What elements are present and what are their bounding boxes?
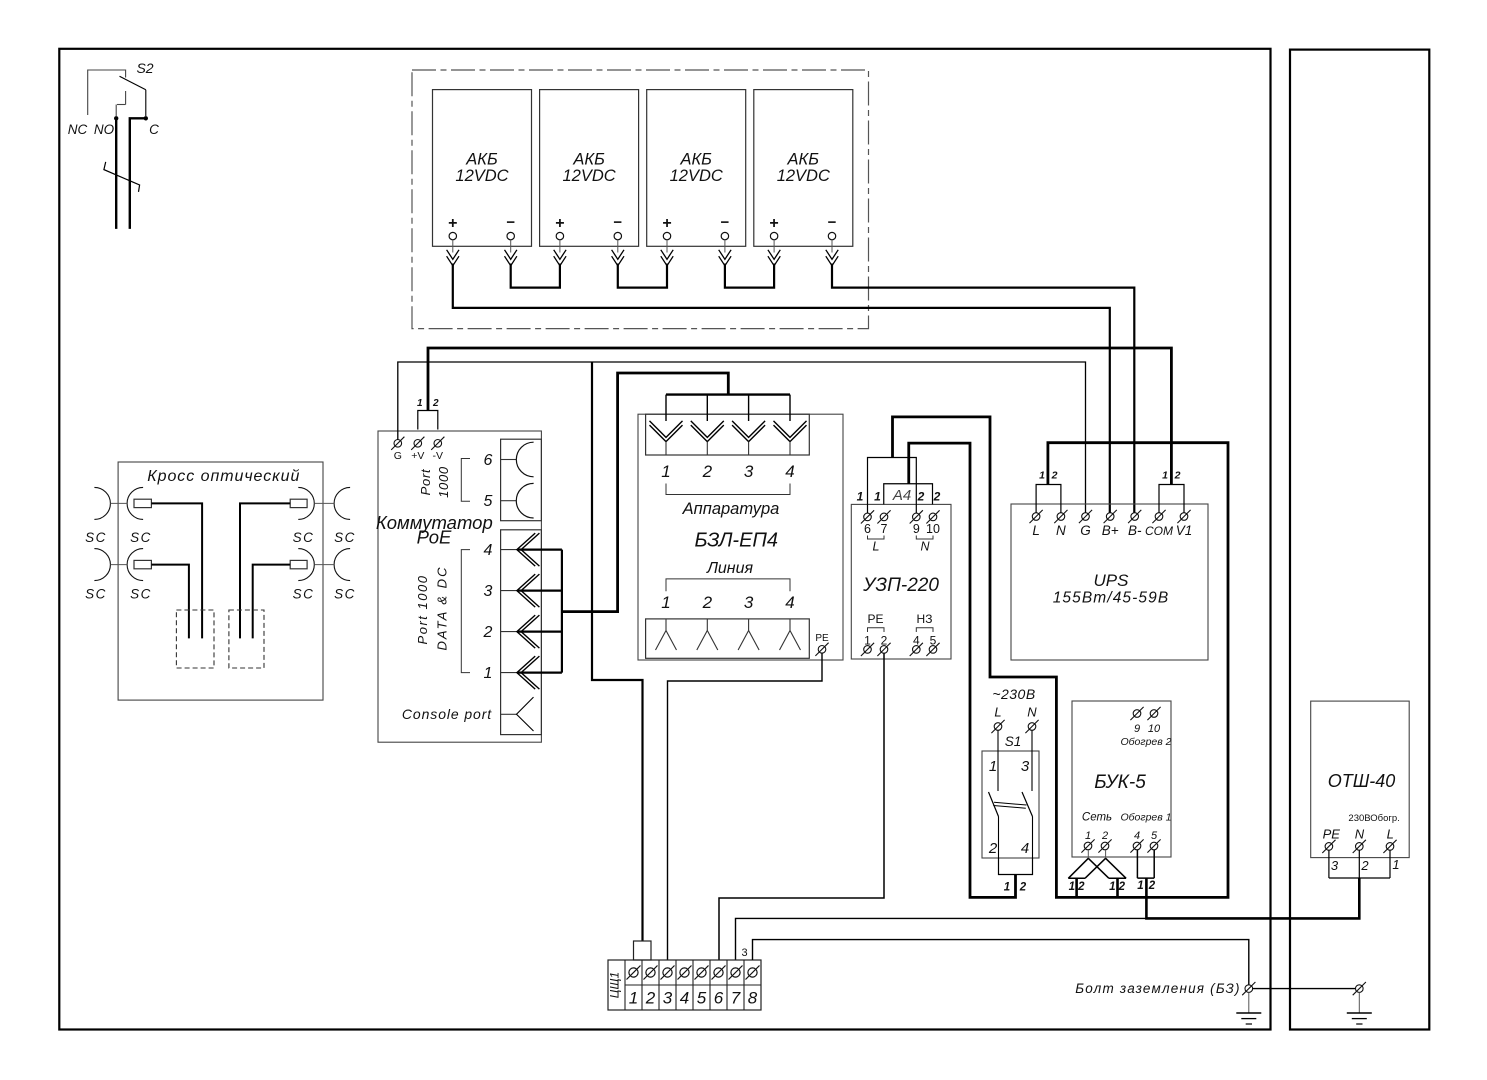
- svg-text:B-: B-: [1128, 523, 1142, 538]
- svg-text:SC: SC: [130, 587, 152, 602]
- wire PoE data bus vertical: [561, 550, 563, 673]
- PoE uplink ports box: [501, 439, 542, 521]
- svg-text:Сеть: Сеть: [1082, 812, 1112, 824]
- svg-text:−: −: [613, 214, 622, 231]
- terminal ЦЩ1-1: [629, 968, 638, 977]
- Port 1000 DATA & DC bracket: [461, 550, 470, 673]
- svg-text:−: −: [828, 214, 837, 231]
- УЗП terminal 7: [880, 513, 888, 521]
- svg-text:АКБ: АКБ: [465, 151, 498, 169]
- svg-text:12VDC: 12VDC: [562, 167, 615, 185]
- svg-text:230В: 230В: [1348, 813, 1370, 824]
- UPS terminal B-: [1131, 513, 1139, 521]
- S1 pole L: [997, 730, 999, 791]
- svg-text:1: 1: [661, 593, 670, 612]
- БЗЛ line ports box: [646, 619, 810, 658]
- svg-text:S2: S2: [136, 60, 153, 76]
- PoE data ports box: [501, 530, 542, 735]
- svg-text:6: 6: [484, 452, 493, 469]
- БЗЛ apparatus ports box: [646, 414, 810, 455]
- svg-text:SC: SC: [85, 530, 107, 545]
- svg-text:АКБ: АКБ: [787, 151, 820, 169]
- S1 pole N: [1031, 730, 1033, 791]
- svg-text:РоЕ: РоЕ: [417, 527, 452, 548]
- svg-text:2: 2: [1077, 881, 1085, 893]
- UPS box: [1011, 504, 1208, 660]
- БЗЛ PE terminal: [818, 646, 826, 654]
- UPS terminal B+: [1106, 513, 1114, 521]
- terminal ЦЩ1-2: [646, 968, 655, 977]
- svg-text:+: +: [769, 215, 778, 232]
- svg-text:2: 2: [917, 490, 925, 504]
- svg-text:Аппаратура: Аппаратура: [682, 500, 780, 518]
- UPS terminal G: [1082, 513, 1090, 521]
- wire terminal8 to ground bolt: [753, 940, 1249, 985]
- wire БЗЛ apparatus bus: [666, 393, 790, 395]
- svg-text:Обогрев 2: Обогрев 2: [1120, 736, 1171, 748]
- svg-text:1: 1: [484, 665, 493, 682]
- wire БЗЛ drop x748.6: [748, 395, 750, 421]
- svg-text:~230В: ~230В: [992, 686, 1035, 702]
- PoE port 3 (DATA & DC): [501, 590, 517, 592]
- svg-text:1: 1: [1392, 857, 1399, 872]
- svg-text:SC: SC: [293, 587, 315, 602]
- svg-text:−: −: [721, 214, 730, 231]
- УЗП terminal 9: [913, 513, 921, 521]
- PoE port 2 (DATA & DC): [501, 631, 517, 633]
- PoE console port symbol: [501, 713, 517, 715]
- svg-text:1: 1: [857, 490, 864, 504]
- PoE port 1 (DATA & DC): [501, 672, 517, 674]
- svg-text:SC: SC: [85, 587, 107, 602]
- svg-text:1: 1: [1109, 881, 1115, 893]
- wire battery2- to battery3+: [618, 264, 667, 288]
- svg-text:Console port: Console port: [402, 706, 492, 722]
- svg-text:5: 5: [1151, 830, 1158, 842]
- svg-text:SC: SC: [130, 530, 152, 545]
- svg-text:2: 2: [933, 490, 941, 504]
- УЗП НЗ bracket: [916, 628, 933, 632]
- svg-text:ЦЩ1: ЦЩ1: [608, 972, 622, 998]
- svg-text:NC: NC: [68, 122, 88, 137]
- svg-text:9: 9: [1134, 723, 1140, 735]
- wire battery1- to battery2+: [511, 264, 560, 288]
- svg-text:5: 5: [697, 989, 707, 1008]
- svg-text:3: 3: [1331, 858, 1339, 873]
- UPS COM-V1 connector bracket: [1159, 485, 1184, 514]
- PoE terminal +V: [414, 440, 422, 448]
- svg-text:РЕ: РЕ: [1323, 827, 1341, 842]
- SC adapter top-right: [298, 487, 314, 519]
- svg-text:+: +: [555, 215, 564, 232]
- svg-text:7: 7: [731, 989, 741, 1008]
- svg-text:6: 6: [714, 989, 724, 1008]
- svg-text:G: G: [1080, 523, 1091, 538]
- УЗП terminal 10: [929, 513, 937, 521]
- terminal ЦЩ1-3: [663, 968, 672, 977]
- svg-text:РЕ: РЕ: [867, 612, 883, 626]
- svg-text:Кросс оптический: Кросс оптический: [147, 468, 300, 485]
- switch S2 C stem: [145, 90, 147, 116]
- svg-text:Линия: Линия: [706, 560, 754, 577]
- svg-text:4: 4: [1021, 840, 1029, 857]
- S1 output bracket: [999, 858, 1033, 875]
- wire +V cable to UPS COM/V1: [428, 348, 1171, 485]
- S1 tie bar: [994, 802, 1027, 805]
- БУК terminal 9: [1133, 710, 1141, 718]
- wire S2 C down: [130, 118, 146, 229]
- wire battery3- to battery4+: [725, 264, 774, 288]
- wire S1 output to УЗП А4: [909, 443, 1016, 897]
- wire БУК Обогрев1 to ОТШ-40: [1146, 878, 1359, 918]
- svg-text:3: 3: [484, 583, 493, 600]
- svg-text:2: 2: [432, 398, 439, 409]
- svg-text:SC: SC: [293, 530, 315, 545]
- svg-text:5: 5: [484, 493, 493, 510]
- wire БЗЛ PE to terminal 3: [668, 653, 823, 960]
- ОТШ terminal bracket: [1328, 850, 1330, 878]
- svg-text:4: 4: [1134, 830, 1140, 842]
- svg-text:SC: SC: [334, 587, 356, 602]
- PoE port 5 (Port 1000): [501, 500, 517, 502]
- SC adapter bottom-right: [298, 549, 314, 581]
- heater ОТШ-40 box: [1311, 701, 1410, 858]
- wire battery1 + bus to UPS B+: [453, 264, 1110, 514]
- wire PoE data port y590.6: [517, 589, 562, 591]
- svg-text:1: 1: [1039, 470, 1045, 482]
- switch S2 blade: [120, 76, 146, 90]
- wire БЗЛ drop x790: [789, 395, 791, 421]
- svg-text:9: 9: [913, 522, 920, 536]
- svg-text:АКБ: АКБ: [572, 151, 605, 169]
- ground symbol БЗ: [1248, 992, 1250, 1012]
- wire pigtail top-left: [151, 503, 202, 638]
- wire battery4 - to UPS B-: [832, 264, 1134, 514]
- UPS terminal V1: [1180, 513, 1188, 521]
- svg-text:Болт заземления (БЗ): Болт заземления (БЗ): [1075, 981, 1240, 996]
- svg-text:БУК-5: БУК-5: [1094, 772, 1146, 793]
- svg-text:2: 2: [1101, 830, 1108, 842]
- svg-text:B+: B+: [1102, 523, 1119, 538]
- БЗЛ apparatus port 2: [691, 421, 724, 438]
- wire УЗП PE-2 to terminal 6: [719, 653, 884, 960]
- svg-text:N: N: [1027, 705, 1037, 720]
- UPS terminal L: [1032, 513, 1040, 521]
- splice cassette right (dashed): [229, 610, 264, 668]
- svg-text:L: L: [1032, 523, 1040, 538]
- svg-text:1: 1: [1137, 880, 1143, 892]
- svg-text:6: 6: [864, 522, 871, 536]
- svg-text:L: L: [994, 705, 1001, 720]
- switch S2 node C: [144, 116, 148, 120]
- УЗП РЕ bracket: [868, 628, 885, 632]
- svg-text:−: −: [506, 214, 515, 231]
- svg-text:Port: Port: [418, 468, 433, 495]
- svg-text:SC: SC: [334, 530, 356, 545]
- battery АКБ1 12VDC: [433, 90, 532, 247]
- svg-text:+: +: [662, 215, 671, 232]
- svg-text:Обогрев 1: Обогрев 1: [1120, 812, 1171, 824]
- svg-text:УЗП-220: УЗП-220: [862, 575, 939, 596]
- wire mains УЗП 6/9 to UPS L-N and БУК: [893, 417, 1229, 898]
- БУК Сеть connector left: [1068, 877, 1085, 879]
- svg-text:3: 3: [742, 947, 748, 959]
- svg-text:4: 4: [680, 989, 689, 1008]
- battery АКБ4 12VDC: [754, 90, 853, 247]
- БУК Обогрев1 connector: [1136, 850, 1138, 878]
- SC adapter top-left: [94, 487, 110, 519]
- svg-text:4: 4: [484, 542, 493, 559]
- connector А4 bracket: [884, 484, 933, 505]
- БУК Сеть terminal stubs: [1087, 850, 1089, 858]
- terminal ЦЩ1-8: [748, 968, 757, 977]
- wire УЗП 6-9 bridge: [868, 458, 917, 514]
- protector БЗЛ-ЕП4 box: [638, 414, 843, 660]
- wire БУК Сеть left to mains: [1075, 878, 1078, 897]
- wire G net drop to terminal block: [592, 362, 643, 941]
- svg-text:N: N: [920, 540, 930, 554]
- svg-text:2: 2: [702, 462, 713, 481]
- svg-text:L: L: [873, 540, 880, 554]
- svg-text:1: 1: [1069, 881, 1075, 893]
- svg-text:DATA & DC: DATA & DC: [435, 566, 450, 651]
- switch S2 NC bracket wire: [88, 70, 126, 115]
- box Кросс оптический: [118, 462, 323, 700]
- svg-text:3: 3: [744, 593, 754, 612]
- УЗП terminal 6: [864, 513, 872, 521]
- battery АКБ2 12VDC: [540, 90, 639, 247]
- svg-text:8: 8: [748, 989, 758, 1008]
- svg-text:4: 4: [785, 593, 794, 612]
- svg-text:12VDC: 12VDC: [670, 167, 723, 185]
- svg-text:2: 2: [483, 624, 493, 641]
- terminal block ЦЩ1 body: [608, 960, 761, 1010]
- svg-text:Обогр.: Обогр.: [1370, 813, 1400, 824]
- ground bolt БЗ: [1245, 985, 1253, 993]
- connector above ЦЩ1 1-2: [634, 941, 652, 960]
- UPS terminal N: [1057, 513, 1065, 521]
- svg-text:1: 1: [629, 989, 638, 1008]
- svg-text:АКБ: АКБ: [679, 151, 712, 169]
- switch S2 node NO: [114, 116, 118, 120]
- PoE port 4 (DATA & DC): [501, 549, 517, 551]
- UPS L-N connector bracket: [1036, 485, 1061, 514]
- БЗЛ apparatus port 1: [650, 421, 683, 438]
- PoE terminal G: [394, 440, 402, 448]
- svg-text:3: 3: [663, 989, 673, 1008]
- arrester УЗП-220 box: [851, 504, 951, 659]
- svg-text:12VDC: 12VDC: [455, 167, 508, 185]
- battery АКБ3 12VDC: [647, 90, 746, 247]
- svg-text:1: 1: [661, 462, 670, 481]
- svg-text:1000: 1000: [436, 466, 451, 498]
- svg-text:2: 2: [1360, 858, 1369, 873]
- svg-text:НЗ: НЗ: [917, 612, 933, 626]
- БЗЛ apparatus bracket: [666, 484, 790, 495]
- svg-text:4: 4: [785, 462, 794, 481]
- svg-text:2: 2: [988, 840, 998, 857]
- БУК Сеть connector right: [1109, 877, 1126, 879]
- terminal ЦЩ1-4: [680, 968, 689, 977]
- БЗЛ apparatus port 3: [732, 421, 765, 438]
- ground symbol ОТШ: [1358, 992, 1360, 1012]
- БЗЛ apparatus port 4: [774, 421, 807, 438]
- PoE port 6 (Port 1000): [501, 459, 517, 461]
- PoE terminal -V: [434, 440, 442, 448]
- wire terminal7 to Обогрев net: [736, 918, 1146, 960]
- wire БЗ to ОТШ bolt: [1253, 988, 1356, 990]
- svg-text:1: 1: [874, 490, 881, 504]
- splice cassette left (dashed): [176, 610, 214, 668]
- wire PoE data bus to БЗЛ: [562, 373, 728, 612]
- controller БУК-5 box: [1072, 701, 1171, 857]
- ground bolt ОТШ: [1356, 985, 1364, 993]
- svg-text:-V: -V: [433, 450, 444, 462]
- terminal ЦЩ1-7: [731, 968, 740, 977]
- svg-text:Port 1000: Port 1000: [415, 575, 430, 645]
- wire PoE data port y672.6: [517, 671, 562, 673]
- svg-text:7: 7: [881, 522, 888, 536]
- svg-text:1: 1: [1004, 882, 1010, 894]
- svg-text:1: 1: [989, 758, 997, 775]
- svg-text:3: 3: [744, 462, 754, 481]
- wire БЗЛ drop x666: [665, 395, 667, 421]
- svg-text:G: G: [394, 450, 402, 462]
- svg-text:+V: +V: [411, 450, 424, 462]
- svg-text:N: N: [1355, 827, 1365, 842]
- svg-text:1: 1: [1085, 830, 1091, 842]
- cabinet main enclosure: [59, 49, 1270, 1030]
- Port 1000 bracket: [461, 459, 470, 502]
- svg-text:N: N: [1056, 523, 1066, 538]
- wire S2 NO down: [115, 118, 117, 229]
- svg-text:1: 1: [417, 398, 423, 409]
- svg-text:C: C: [149, 122, 159, 137]
- svg-text:UPS: UPS: [1094, 571, 1130, 590]
- S1 input terminal N: [1028, 723, 1036, 731]
- terminal ЦЩ1-5: [697, 968, 706, 977]
- svg-text:ОТШ-40: ОТШ-40: [1328, 771, 1396, 791]
- breaker S1 box: [982, 751, 1039, 858]
- svg-text:2: 2: [702, 593, 713, 612]
- svg-text:2: 2: [1019, 882, 1027, 894]
- svg-text:PE: PE: [815, 633, 829, 644]
- S1 input terminal L: [994, 723, 1002, 731]
- svg-text:10: 10: [1148, 723, 1161, 735]
- svg-text:2: 2: [1051, 470, 1058, 482]
- svg-text:10: 10: [926, 522, 940, 536]
- БУК crossed wires (Сеть): [1068, 858, 1088, 878]
- УЗП L bracket: [868, 536, 885, 540]
- UPS terminal COM: [1155, 513, 1163, 521]
- БУК terminal 10: [1150, 710, 1158, 718]
- УЗП N bracket: [916, 536, 933, 540]
- svg-text:3: 3: [1021, 758, 1030, 775]
- wire pigtail bottom-left: [151, 565, 189, 639]
- svg-text:S1: S1: [1005, 734, 1022, 749]
- БЗЛ line bracket: [666, 579, 790, 591]
- cabinet ОТШ enclosure (right): [1290, 50, 1429, 1030]
- svg-text:155Вm/45-59В: 155Вm/45-59В: [1053, 590, 1170, 607]
- switch S2 dashed actuator link: [125, 91, 127, 105]
- wire pigtail bottom-right: [253, 565, 291, 639]
- wire PoE data port y631.6: [517, 630, 562, 632]
- wire БУК Сеть right to mains: [1116, 878, 1119, 897]
- svg-text:12VDC: 12VDC: [777, 167, 830, 185]
- wire pigtail top-right: [240, 503, 290, 638]
- cable slash mark: [104, 162, 140, 192]
- svg-text:2: 2: [645, 989, 656, 1008]
- switch Коммутатор PoE box: [378, 431, 541, 742]
- wire G net to UPS G: [398, 362, 1086, 513]
- svg-text:БЗЛ-ЕП4: БЗЛ-ЕП4: [695, 530, 779, 552]
- svg-text:1: 1: [1162, 470, 1168, 482]
- svg-text:NO: NO: [94, 122, 115, 137]
- svg-text:2: 2: [1148, 880, 1156, 892]
- PoE power connector bracket: [418, 411, 438, 430]
- SC adapter bottom-left: [94, 549, 110, 581]
- wire БЗЛ drop x707.3: [706, 395, 708, 421]
- svg-text:V1: V1: [1176, 523, 1193, 538]
- svg-text:L: L: [1387, 827, 1394, 842]
- svg-text:2: 2: [1174, 470, 1181, 482]
- wire PoE data port y549.6: [517, 548, 562, 550]
- svg-text:COM: COM: [1145, 524, 1173, 538]
- terminal ЦЩ1-6: [714, 968, 723, 977]
- svg-text:+: +: [448, 215, 457, 232]
- battery enclosure (dash-dot): [412, 70, 869, 329]
- svg-text:А4: А4: [892, 487, 911, 504]
